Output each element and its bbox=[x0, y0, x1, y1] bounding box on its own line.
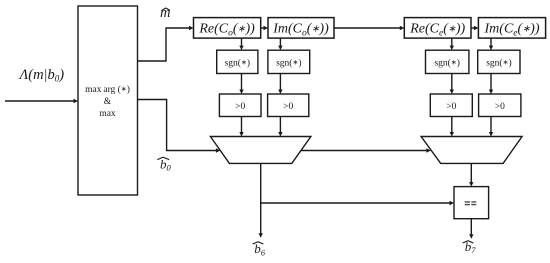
mux trapezoid 2 bbox=[421, 137, 522, 164]
svg-text:>0: >0 bbox=[235, 102, 245, 112]
block max-arg rectangle bbox=[78, 6, 138, 195]
svg-text:>0: >0 bbox=[446, 102, 456, 112]
sgn box 3 bbox=[426, 50, 469, 73]
wire mux1 to mux2 bbox=[301, 148, 431, 152]
chain3 wire gt0 to mux bbox=[450, 117, 454, 137]
svg-text:Re(Co(∗)): Re(Co(∗)) bbox=[198, 22, 255, 39]
mux trapezoid 1 bbox=[210, 137, 311, 164]
gt0 box 2 bbox=[268, 94, 309, 117]
chain4 wire gt0 to mux bbox=[489, 117, 493, 137]
sgn box 1 bbox=[217, 50, 258, 73]
input arrow Lambda(m|b0) bbox=[5, 67, 78, 103]
wire equality output b7 bbox=[463, 219, 477, 255]
svg-text:sgn(∗): sgn(∗) bbox=[225, 58, 250, 69]
box Im(Ce) bbox=[478, 18, 545, 39]
chain4 wire sgn to gt0 bbox=[489, 74, 493, 95]
svg-text:max: max bbox=[99, 109, 116, 119]
wire b0-hat select bbox=[138, 100, 221, 173]
svg-text:>0: >0 bbox=[495, 102, 505, 112]
svg-text:&: & bbox=[104, 97, 112, 107]
box Re(Ce) bbox=[404, 18, 471, 39]
wire mux1 output b6 bbox=[253, 163, 266, 257]
svg-text:sgn(∗): sgn(∗) bbox=[276, 58, 301, 69]
gt0 box 3 bbox=[430, 94, 472, 117]
sgn box 2 bbox=[268, 50, 310, 73]
chain3 wire box to sgn bbox=[450, 38, 454, 50]
chain2 wire gt0 to mux bbox=[278, 117, 282, 137]
arrow box2 to box3 bbox=[334, 26, 404, 30]
box Im(Co) bbox=[268, 18, 334, 39]
chain3 wire sgn to gt0 bbox=[450, 74, 454, 95]
chain1 wire box to sgn bbox=[239, 38, 243, 50]
equality box bbox=[454, 187, 489, 219]
gt0 box 4 bbox=[479, 94, 521, 117]
arrow box3 to box4 bbox=[471, 26, 478, 30]
chain2 wire sgn to gt0 bbox=[278, 74, 282, 95]
svg-text:m: m bbox=[160, 5, 170, 21]
sgn box 4 bbox=[478, 50, 520, 73]
svg-text:>0: >0 bbox=[283, 102, 293, 112]
chain2 wire box to sgn bbox=[278, 38, 282, 50]
gt0 box 1 bbox=[219, 94, 261, 117]
svg-text:sgn(∗): sgn(∗) bbox=[486, 58, 511, 69]
wire m-hat bbox=[138, 5, 194, 61]
box Re(Co) bbox=[194, 18, 261, 39]
wire branch to equality bbox=[261, 201, 454, 205]
svg-text:sgn(∗): sgn(∗) bbox=[434, 58, 459, 69]
wire mux2 output bbox=[469, 163, 473, 186]
chain1 wire gt0 to mux bbox=[239, 117, 243, 137]
svg-text:Im(Ce(∗)): Im(Ce(∗)) bbox=[484, 22, 540, 39]
chain4 wire box to sgn bbox=[489, 38, 493, 50]
arrow box1 to box2 bbox=[261, 26, 268, 30]
chain1 wire sgn to gt0 bbox=[239, 74, 243, 95]
svg-text:Re(Ce(∗)): Re(Ce(∗)) bbox=[409, 22, 465, 39]
svg-text:Im(Co(∗)): Im(Co(∗)) bbox=[272, 22, 329, 39]
